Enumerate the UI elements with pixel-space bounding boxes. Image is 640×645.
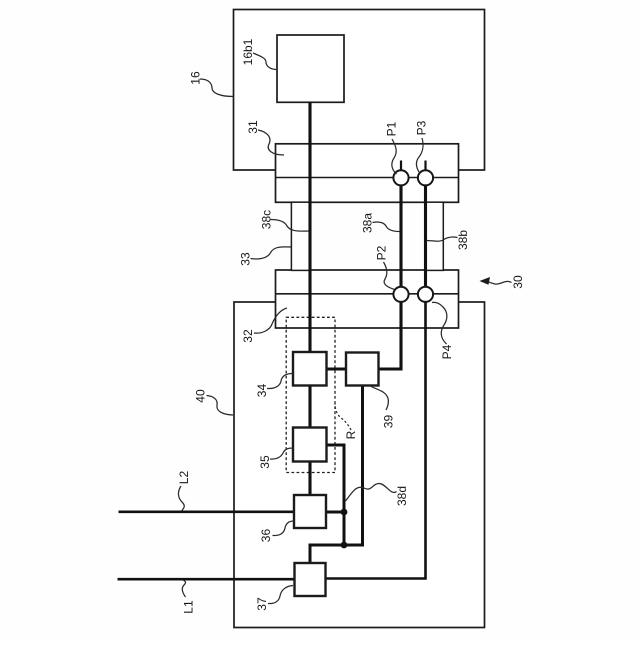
svg-text:L1: L1 xyxy=(182,600,196,614)
leader 34 xyxy=(267,374,293,389)
duct 33 left (between connectors) xyxy=(291,202,309,270)
leader 38d wavy xyxy=(346,484,397,502)
leader 16b1 xyxy=(253,53,277,70)
inner contact line of box 31 xyxy=(276,177,459,179)
wire box34 to box39 xyxy=(326,367,348,370)
line L1 xyxy=(118,578,297,581)
wire box35 to box36 xyxy=(308,461,311,497)
svg-text:35: 35 xyxy=(258,455,272,469)
box 34 xyxy=(293,352,327,386)
wire box34 to box35 xyxy=(308,385,311,429)
leader 32 xyxy=(254,308,287,333)
svg-text:31: 31 xyxy=(246,120,260,134)
contact circle P1 xyxy=(393,170,408,185)
junction dot at 344,512 xyxy=(341,509,348,516)
contact circle P2 xyxy=(393,287,408,302)
duct right (38b sheath) xyxy=(426,202,443,270)
leader P2 xyxy=(384,262,395,290)
leader L1 xyxy=(182,580,185,597)
leader 38b xyxy=(427,237,458,241)
box 36 xyxy=(294,495,326,528)
svg-text:34: 34 xyxy=(255,384,269,398)
leader 39 xyxy=(371,387,388,411)
svg-text:P3: P3 xyxy=(415,120,429,135)
leader L2 xyxy=(178,486,184,511)
leader 35 xyxy=(270,448,293,459)
line L2 xyxy=(119,510,296,513)
wire P2 to box 39 xyxy=(377,294,401,369)
svg-text:30: 30 xyxy=(511,275,525,289)
box 35 xyxy=(293,428,327,462)
svg-text:40: 40 xyxy=(194,389,208,403)
box 39 xyxy=(346,353,379,386)
leader P3 xyxy=(416,138,423,172)
arrow 30 head xyxy=(480,277,491,285)
pin stub above P3 xyxy=(424,161,426,172)
leader P1 xyxy=(392,139,397,174)
box 37 xyxy=(295,563,326,596)
dashed box R xyxy=(286,317,335,472)
svg-text:32: 32 xyxy=(241,329,255,343)
svg-text:38a: 38a xyxy=(361,213,375,233)
svg-text:P2: P2 xyxy=(375,245,389,260)
svg-text:37: 37 xyxy=(255,597,269,611)
wire 38c vertical (16b1 to box 34) xyxy=(308,102,311,354)
box 40 (housing) xyxy=(234,302,485,628)
box 16b1 (component in 16) xyxy=(277,35,344,102)
box 32 (connector housing) xyxy=(276,270,459,328)
wire 38b (P3 to P4) xyxy=(424,178,427,294)
svg-text:36: 36 xyxy=(259,529,273,543)
pin stub above P1 xyxy=(400,161,402,172)
leader 33 xyxy=(251,247,292,259)
box 16 (housing) xyxy=(234,10,485,171)
wire to box37 top xyxy=(309,544,312,565)
inner contact line of box 32 xyxy=(276,293,459,295)
svg-text:R: R xyxy=(344,430,358,439)
leader 38c xyxy=(271,220,309,232)
wire horizontal y545 xyxy=(310,544,364,547)
leader 31 xyxy=(258,130,284,155)
wire P4 to box 37 xyxy=(325,294,426,578)
leader P4 xyxy=(432,302,447,344)
wire 38d vertical (box39 down) xyxy=(361,385,364,546)
arrow 30 shaft xyxy=(488,281,512,284)
wire box36 right branch xyxy=(325,511,344,514)
svg-text:39: 39 xyxy=(382,415,396,429)
svg-text:16: 16 xyxy=(189,71,203,85)
svg-text:33: 33 xyxy=(239,252,253,266)
contact circle P3 xyxy=(418,170,433,185)
wire box35 right branch xyxy=(326,445,345,545)
svg-text:P1: P1 xyxy=(385,121,399,136)
wire 38a (P1 to P2) xyxy=(399,178,402,294)
leader 40 xyxy=(207,396,234,416)
svg-text:38d: 38d xyxy=(395,486,409,506)
contact circle P4 xyxy=(418,287,433,302)
svg-text:L2: L2 xyxy=(177,471,191,485)
leader 37 xyxy=(268,586,293,604)
svg-text:38c: 38c xyxy=(260,210,274,229)
junction dot at 344,545 xyxy=(341,542,348,549)
svg-text:16b1: 16b1 xyxy=(241,38,255,65)
box 31 (connector housing) xyxy=(276,144,459,203)
leader 38a xyxy=(373,222,400,232)
leader 16 xyxy=(200,79,234,97)
svg-text:P4: P4 xyxy=(440,344,454,359)
svg-text:38b: 38b xyxy=(456,230,470,250)
leader R dashed xyxy=(335,404,351,431)
leader 36 xyxy=(273,521,295,536)
